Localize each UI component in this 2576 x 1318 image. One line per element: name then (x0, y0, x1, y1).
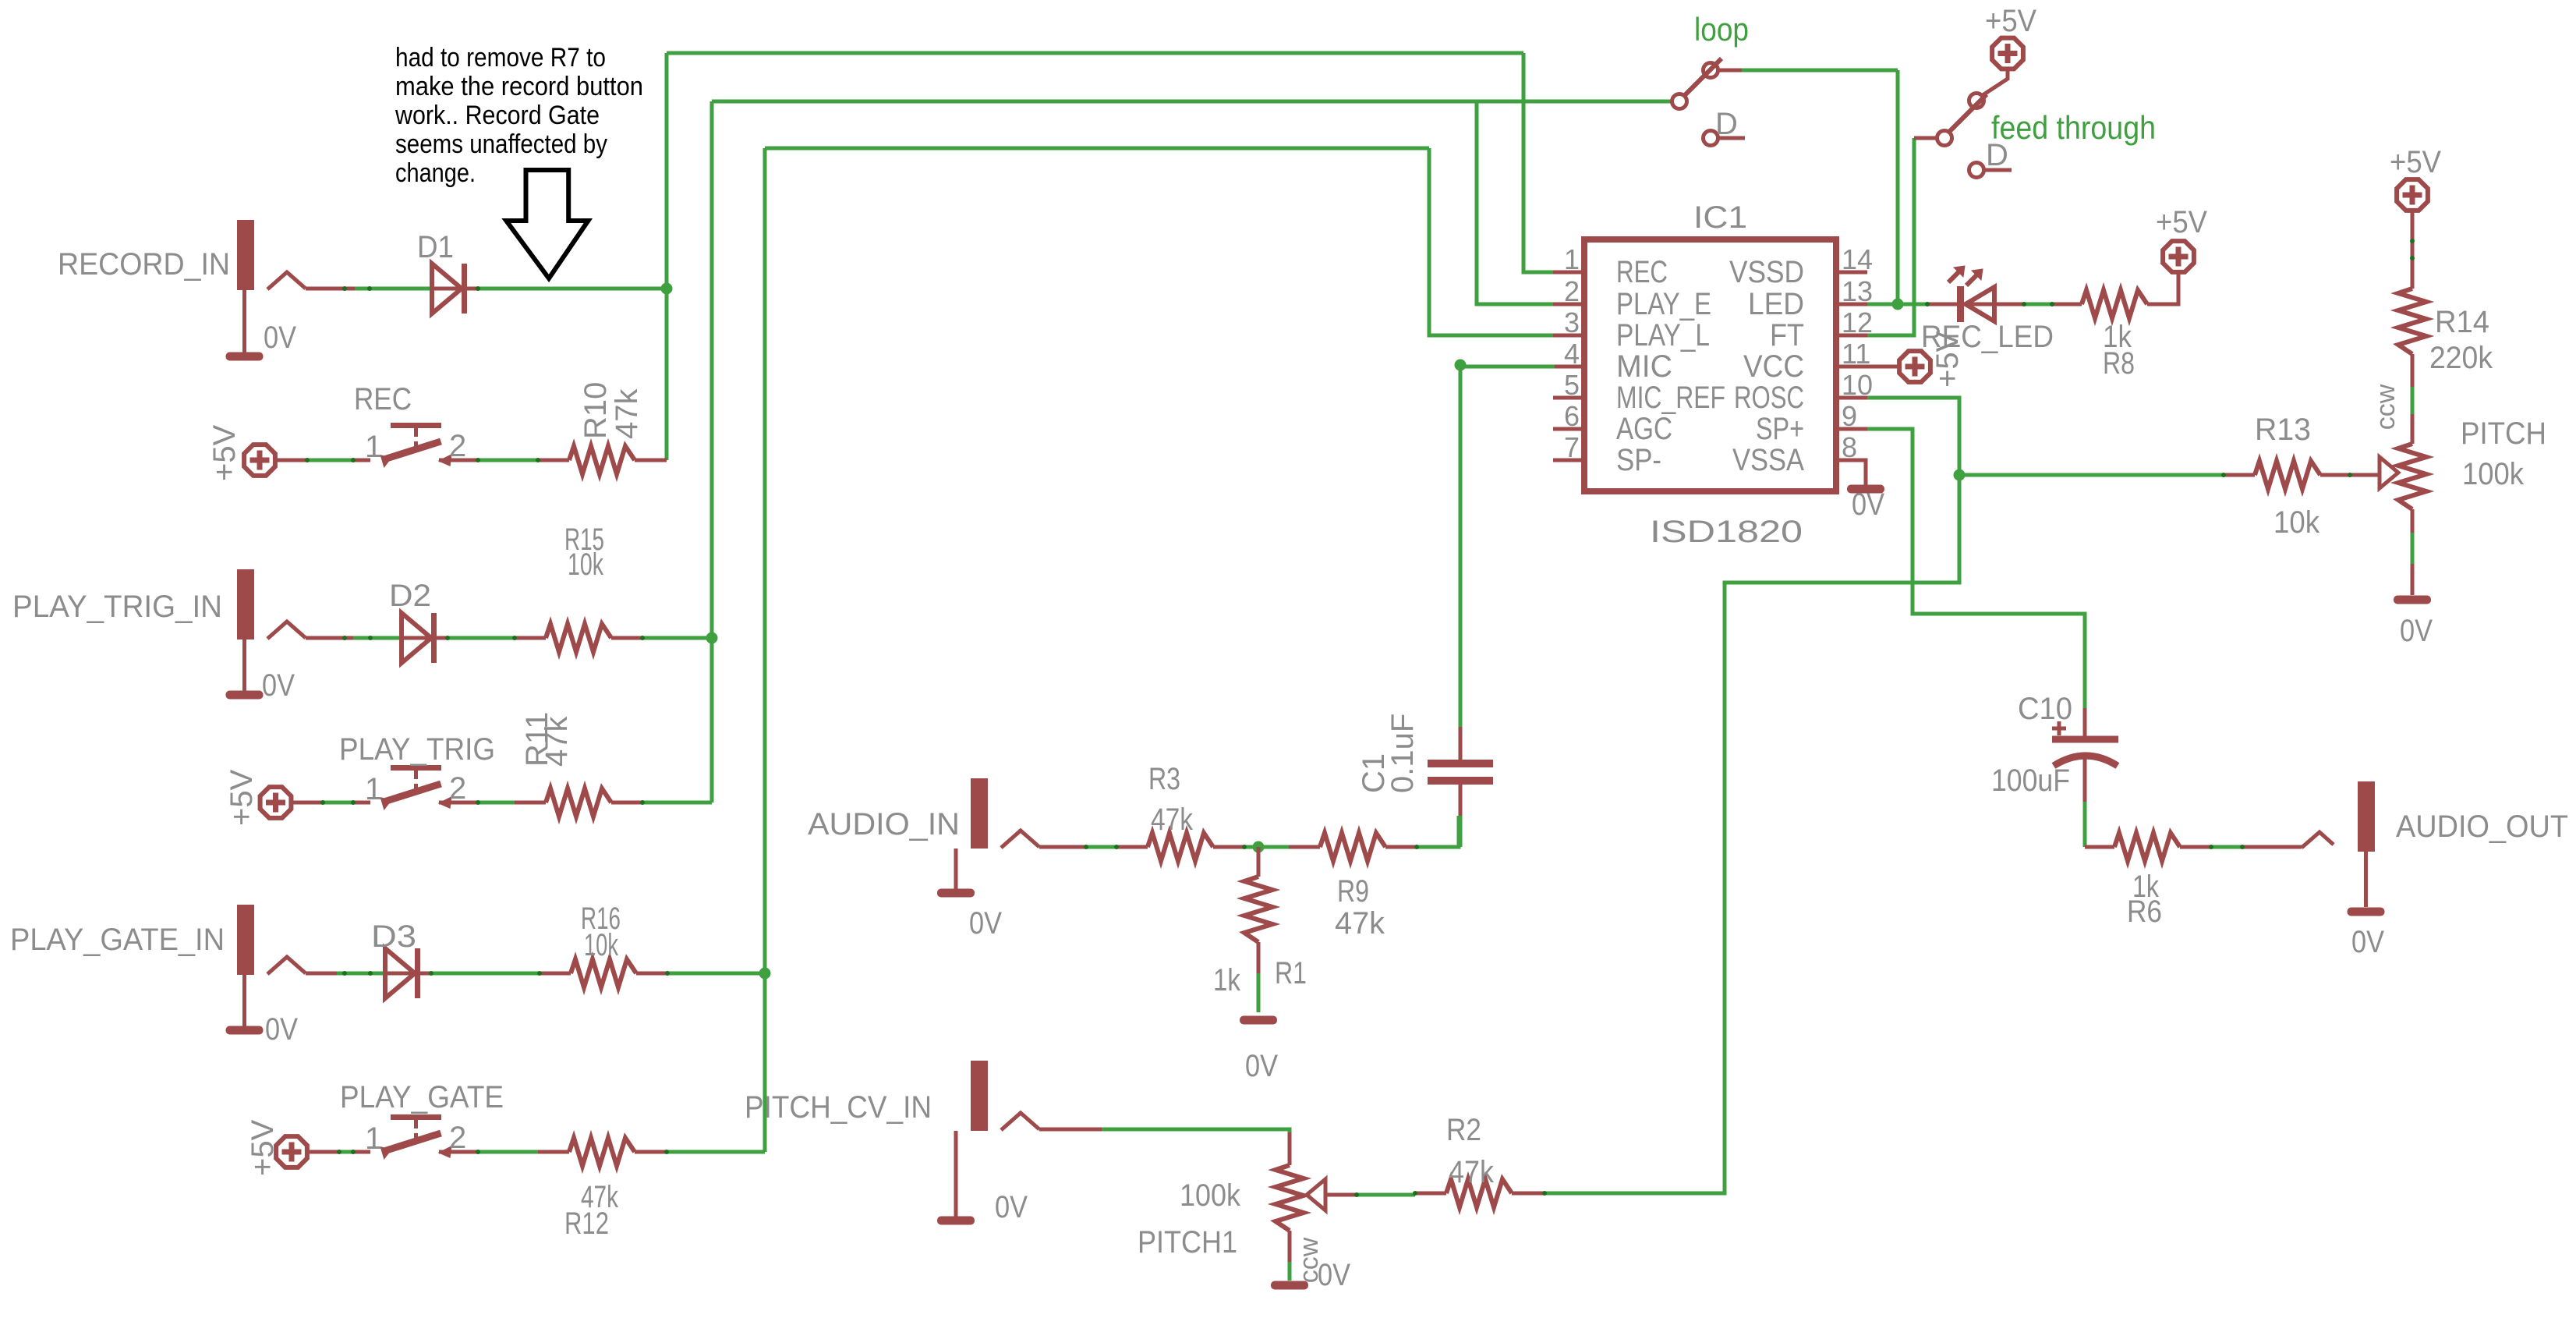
wire R6 right pin (2180, 845, 2211, 849)
resistor R16 zigzag (571, 959, 636, 987)
wire R12 right pin (635, 1150, 667, 1154)
ground PITCH_CV_IN (937, 1217, 975, 1225)
svg-text:+5V: +5V (207, 424, 242, 481)
svg-text:change.: change. (395, 158, 476, 188)
junction AUDIO node (1253, 841, 1265, 853)
svg-text:REC_LED: REC_LED (1921, 320, 2054, 354)
ground AUDIO_OUT (2348, 908, 2385, 916)
wire FT net (1867, 138, 1914, 335)
ground PITCH1 (1271, 1281, 1308, 1290)
jack AUDIO_IN body (971, 778, 1039, 849)
IC1 pin 2 stub (1553, 303, 1584, 306)
wire REC to R10 (478, 459, 538, 462)
svg-text:2: 2 (1564, 275, 1580, 307)
wire D2 to R15 (447, 636, 515, 640)
wire pin1 drop (1523, 53, 1555, 272)
svg-text:0V: 0V (995, 1190, 1028, 1224)
wire RECORD_IN pin (306, 287, 355, 291)
wire D3 to R16 (430, 972, 540, 976)
jack RECORD_IN body (237, 220, 306, 290)
jack PLAY_GATE_IN body (237, 905, 306, 975)
svg-text:PLAY_TRIG: PLAY_TRIG (339, 732, 495, 767)
diode D3 (385, 948, 418, 998)
svg-text:R3: R3 (1148, 762, 1180, 796)
junction PLAY_TRIG node (706, 632, 718, 644)
pushbutton REC (380, 423, 452, 468)
wire LED net pin13 (1867, 303, 1898, 306)
wire C10 bottom pin (2083, 758, 2087, 802)
wire PITCH1 to ground (1288, 1262, 1292, 1281)
joint dots REC row (305, 458, 310, 462)
wire R12 to trunk (667, 1150, 765, 1154)
wire R14 bottom pin (2411, 354, 2415, 387)
resistor R15 zigzag (546, 624, 611, 652)
svg-text:R12: R12 (564, 1206, 609, 1241)
svg-text:10k: 10k (568, 547, 604, 582)
IC1 pin 3 stub (1553, 334, 1584, 338)
wire R15 right pin (611, 636, 642, 640)
wire D1 through (430, 287, 477, 291)
IC IC1 ISD1820 body (1584, 239, 1836, 491)
wire ROSC down to R2 (1545, 475, 1959, 1193)
wire R3 right pin (1213, 845, 1244, 849)
svg-text:+5V: +5V (1985, 4, 2036, 38)
wire VCC pin (1867, 365, 1899, 369)
svg-text:1k: 1k (1213, 963, 1241, 997)
svg-text:47k: 47k (540, 716, 574, 767)
wire MIC net to pin4 (1460, 365, 1555, 369)
resistor R8 zigzag (2082, 290, 2147, 318)
svg-text:10k: 10k (2273, 505, 2320, 540)
svg-text:R10: R10 (579, 382, 613, 439)
junction RECORD_IN node (661, 283, 673, 295)
svg-text:1: 1 (1564, 243, 1580, 275)
wire LED to R8 (2024, 303, 2052, 306)
wire pin8 to ground (1836, 460, 1866, 486)
potentiometer PITCH1 zigzag (1276, 1165, 1304, 1231)
wire C10 top pin (2083, 708, 2087, 738)
wire REC_LED to net (1993, 303, 2024, 306)
IC1 pin 4 stub (1553, 365, 1584, 369)
joint dots R13 row (2221, 473, 2226, 477)
diode D2 (402, 613, 434, 663)
wire C10 to R6 (2083, 802, 2087, 847)
svg-text:RECORD_IN: RECORD_IN (58, 247, 230, 282)
supply +5V feed through (1992, 38, 2023, 69)
potentiometer PITCH wiper (2380, 457, 2398, 488)
IC1 pin 6 stub (1553, 427, 1584, 431)
svg-text:9: 9 (1842, 400, 1857, 432)
svg-text:VSSD: VSSD (1729, 255, 1804, 289)
resistor R2 zigzag (1446, 1179, 1512, 1207)
wire R11 to trunk (642, 801, 712, 805)
capacitor C10 plus sign (2052, 721, 2066, 735)
wire LED to anode (1898, 303, 1927, 306)
joint dots R6 row (2209, 845, 2213, 849)
wire net N$RECORD vertical (665, 53, 669, 460)
IC1 pin 8 stub (1836, 459, 1867, 462)
IC1 pin 13 stub (1836, 303, 1867, 306)
jack PITCH_CV_IN ground stem (954, 1131, 958, 1217)
wire PLAY_GATE to R12 (478, 1150, 538, 1154)
svg-text:LED: LED (1748, 287, 1804, 321)
wire R9 to C1 (1417, 816, 1459, 847)
supply +5V R14 (2397, 179, 2428, 211)
resistor R10 zigzag (569, 446, 635, 474)
svg-text:2: 2 (449, 771, 466, 806)
wire R1 top pin (1257, 847, 1261, 877)
ground PLAY_GATE_IN (226, 1026, 264, 1035)
wire C1 bottom pin (1459, 785, 1463, 816)
wire REC pin2 (439, 459, 478, 462)
ground VSSA pin8 (1847, 485, 1884, 494)
svg-text:5: 5 (1564, 369, 1580, 401)
wire R11 right pin (611, 801, 642, 805)
junction ROSC node (1954, 469, 1966, 481)
wire net N$PLAYGATE vertical (763, 148, 767, 1152)
wire R14 top pin (2411, 211, 2415, 289)
IC1 pin 14 stub (1836, 271, 1867, 275)
svg-text:VSSA: VSSA (1732, 443, 1804, 477)
resistor R11 zigzag (546, 788, 611, 817)
wire R1 to ground (1257, 973, 1261, 1012)
svg-text:REC: REC (1616, 255, 1668, 289)
wire net N$PLAYTRIG trunk (712, 100, 1672, 104)
wire PITCH bottom pin (2411, 509, 2415, 533)
svg-text:0V: 0V (1318, 1258, 1350, 1292)
svg-text:D3: D3 (371, 919, 416, 954)
wire R15 left pin (515, 636, 546, 640)
svg-text:feed through: feed through (1991, 109, 2156, 146)
jack RECORD_IN ground stem (242, 290, 246, 353)
IC1 pin 12 stub (1836, 334, 1867, 338)
wire REC pin1 (353, 459, 370, 462)
wire R2 left pin (1415, 1192, 1446, 1196)
svg-text:100k: 100k (1180, 1178, 1241, 1213)
junction LED node (1892, 299, 1904, 310)
svg-text:PLAY_L: PLAY_L (1616, 318, 1710, 353)
svg-text:PITCH1: PITCH1 (1138, 1225, 1237, 1260)
svg-text:0V: 0V (1852, 487, 1884, 522)
svg-text:47k: 47k (1449, 1155, 1495, 1189)
joint dots RECORD_IN (342, 286, 347, 291)
wire PLAY_GATE pin2 (439, 1150, 478, 1154)
svg-text:11: 11 (1842, 338, 1870, 370)
wire R10 right pin (635, 459, 667, 462)
wire PITCH1 top pin (1288, 1132, 1292, 1165)
wire R2 right pin (1512, 1192, 1545, 1196)
LED REC_LED (1948, 266, 1994, 322)
svg-text:0V: 0V (264, 321, 296, 355)
svg-text:ISD1820: ISD1820 (1650, 515, 1803, 549)
svg-text:7: 7 (1564, 431, 1580, 463)
svg-text:PITCH: PITCH (2461, 416, 2546, 451)
svg-text:4: 4 (1564, 338, 1580, 370)
wire PITCH_CV net (1102, 1129, 1290, 1132)
ground PLAY_TRIG_IN (226, 691, 264, 700)
wire R11 left pin (515, 801, 546, 805)
svg-text:+5V: +5V (225, 769, 259, 826)
wire R16 to trunk (667, 972, 765, 976)
svg-text:PITCH_CV_IN: PITCH_CV_IN (745, 1090, 932, 1125)
svg-text:14: 14 (1842, 243, 1873, 275)
wire wiper to R2 (1357, 1193, 1415, 1197)
wire PITCH ground pin (2411, 564, 2415, 595)
diode D1 (432, 264, 465, 314)
wire PLAY_TRIG_IN net (353, 636, 402, 640)
switch loop (1672, 58, 1746, 146)
IC1 pin 5 stub (1553, 396, 1584, 400)
wire R8 left pin (2052, 303, 2082, 306)
svg-text:AUDIO_IN: AUDIO_IN (808, 807, 960, 841)
wire R12 left pin (538, 1150, 569, 1154)
wire C10 corner to R6 (2085, 845, 2114, 849)
wire D3 through (385, 972, 430, 976)
svg-text:PLAY_TRIG_IN: PLAY_TRIG_IN (12, 590, 222, 624)
wire R13 right pin (2320, 473, 2350, 477)
svg-text:VCC: VCC (1743, 349, 1804, 384)
svg-text:2: 2 (449, 429, 466, 463)
svg-text:10k: 10k (584, 928, 619, 962)
wire R1 bottom pin (1257, 942, 1261, 973)
svg-text:R1: R1 (1275, 956, 1307, 990)
ground R1 (1240, 1016, 1277, 1025)
junction MIC node (1455, 360, 1467, 371)
svg-text:100uF: 100uF (1991, 764, 2070, 798)
supply +5V R8 (2163, 241, 2194, 272)
svg-text:REC: REC (354, 382, 412, 416)
ground PITCH (2394, 596, 2431, 604)
jack AUDIO_OUT ground stem (2364, 852, 2368, 907)
wire PITCH1 bottom pin (1288, 1231, 1292, 1262)
capacitor C1 (1428, 764, 1493, 781)
pushbutton PLAY_TRIG (380, 765, 452, 810)
wire R3 to node (1244, 845, 1289, 849)
junction PLAY_GATE node (759, 968, 771, 980)
wire PITCH top pin (2411, 414, 2415, 444)
wire C1 to audio node (1459, 816, 1463, 847)
resistor R1 zigzag vertical (1244, 877, 1272, 942)
potentiometer PITCH1 wiper (1307, 1179, 1325, 1210)
wire PITCH1 wiper pin (1325, 1193, 1357, 1197)
wire pin3 drop (1429, 148, 1555, 335)
svg-text:IC1: IC1 (1693, 200, 1747, 235)
svg-text:47k: 47k (1151, 802, 1194, 837)
svg-text:2: 2 (449, 1121, 466, 1155)
wire PLAY_TRIG_IN pin (306, 636, 353, 640)
capacitor C10 (2052, 739, 2118, 766)
svg-text:R9: R9 (1337, 874, 1369, 909)
wire R3 left pin (1116, 845, 1148, 849)
resistor R12 zigzag (569, 1138, 635, 1166)
wire loop top contact pin (1718, 69, 1742, 73)
svg-text:+5V: +5V (2156, 205, 2207, 239)
svg-text:MIC: MIC (1616, 349, 1672, 384)
wire R14 to PITCH (2411, 387, 2415, 414)
wire +5V to REC sw (307, 459, 353, 462)
wire AUDIO_IN pin (1039, 845, 1086, 849)
joint dots PLAY_GATE row (337, 1150, 341, 1154)
supply +5V VCC (1899, 351, 1930, 382)
svg-text:work.. Record Gate: work.. Record Gate (395, 101, 600, 130)
wire net N$PLAYGATE trunk (765, 147, 1429, 151)
wire net N$RECORD trunk (667, 51, 1523, 55)
svg-text:0V: 0V (2351, 925, 2384, 959)
svg-text:make the record button: make the record button (395, 72, 643, 101)
svg-text:AGC: AGC (1616, 412, 1672, 446)
resistor R13 zigzag (2255, 461, 2320, 489)
wire PLAY_GATE_IN net (337, 972, 385, 976)
joint dots PLAY_GATE_IN row (342, 971, 347, 976)
svg-text:R13: R13 (2255, 413, 2311, 447)
wire loop vertical (1896, 70, 1900, 304)
IC1 pin 9 stub (1836, 427, 1867, 431)
wire ROSC to R13 (1959, 473, 2224, 477)
svg-text:ccw: ccw (2371, 384, 2401, 430)
wire R9 right pin (1385, 845, 1417, 849)
svg-text:0V: 0V (262, 668, 295, 703)
svg-text:ROSC: ROSC (1734, 381, 1804, 415)
jack PLAY_GATE_IN ground stem (242, 975, 246, 1027)
wire PLAY_GATE_IN pin (306, 972, 337, 976)
svg-text:47k: 47k (610, 388, 644, 439)
svg-text:PLAY_GATE_IN: PLAY_GATE_IN (10, 923, 225, 957)
joint dots R14 top (2410, 239, 2415, 243)
svg-text:had to remove R7 to: had to remove R7 to (395, 43, 606, 73)
wire D1 to trunk (477, 287, 667, 291)
wire +5V REC pin (277, 459, 307, 462)
svg-text:47k: 47k (1335, 906, 1385, 941)
svg-text:seems unaffected by: seems unaffected by (395, 129, 607, 159)
joint dots R2 row (1354, 1192, 1359, 1197)
annotation arrow (506, 170, 588, 278)
svg-text:D2: D2 (389, 579, 431, 613)
svg-text:1: 1 (365, 1121, 382, 1156)
wire +5V to PLAY_GATE sw (339, 1150, 353, 1154)
resistor R9 zigzag (1320, 833, 1385, 861)
switch feed through (1937, 70, 2012, 178)
IC1 pin 7 stub (1553, 459, 1584, 462)
supply +5V PLAY_GATE (276, 1136, 307, 1167)
wire R15 to trunk (642, 636, 712, 640)
jack AUDIO_OUT (2302, 781, 2375, 852)
wire R10 left pin (538, 459, 569, 462)
IC1 pin 1 stub (1553, 271, 1584, 275)
wire feed sw common pin (1914, 136, 1937, 140)
wire R9 left pin (1289, 845, 1320, 849)
wire +5V to PLAY_TRIG sw (323, 801, 353, 805)
jack PITCH_CV_IN body (971, 1061, 1039, 1131)
svg-text:+5V: +5V (246, 1119, 280, 1176)
wire PLAY_TRIG to R11 (478, 801, 515, 805)
svg-text:0V: 0V (265, 1012, 298, 1047)
wire R8 to +5V (2147, 274, 2178, 304)
svg-text:FT: FT (1770, 318, 1804, 353)
wire R13 left pin (2224, 473, 2255, 477)
wire PLAY_TRIG pin1 (353, 801, 370, 805)
wire PITCH_CV_IN pin (1039, 1128, 1102, 1132)
resistor R14 zigzag vertical (2398, 289, 2426, 354)
svg-text:C10: C10 (2018, 692, 2072, 726)
jack PLAY_TRIG_IN body (237, 569, 306, 640)
svg-text:0V: 0V (2400, 614, 2433, 648)
joint dots LED row (1925, 302, 1930, 306)
svg-text:0.1uF: 0.1uF (1385, 714, 1420, 793)
svg-text:AUDIO_OUT: AUDIO_OUT (2396, 810, 2568, 844)
svg-text:SP+: SP+ (1756, 412, 1804, 446)
wire PITCH to ground (2411, 533, 2415, 564)
joint dots PLAY_TRIG_IN row (342, 636, 347, 640)
supply +5V PLAY_TRIG (260, 787, 292, 818)
wire C1 top pin (1459, 727, 1463, 761)
svg-text:PLAY_E: PLAY_E (1616, 287, 1711, 321)
svg-text:MIC_REF: MIC_REF (1616, 381, 1725, 415)
wire PLAY_TRIG pin2 (439, 801, 478, 805)
jack PLAY_TRIG_IN ground stem (242, 640, 246, 692)
svg-text:loop: loop (1694, 11, 1749, 48)
wire AUDIO_IN net (1086, 845, 1116, 849)
svg-text:R6: R6 (2127, 895, 2162, 929)
svg-text:PLAY_GATE: PLAY_GATE (340, 1080, 504, 1114)
wire D2 through (402, 636, 447, 640)
joint dots PLAY_TRIG row (320, 800, 325, 805)
wire RECORD_IN net (355, 287, 430, 291)
svg-text:R14: R14 (2435, 305, 2489, 339)
resistor R3 zigzag (1148, 833, 1213, 861)
resistor R6 zigzag (2114, 833, 2180, 861)
ground AUDIO_IN (937, 889, 975, 898)
svg-text:1: 1 (365, 430, 382, 464)
wire net N$PLAYTRIG vertical (710, 101, 714, 802)
wire PLAY_GATE pin1 (353, 1150, 370, 1154)
supply +5V REC (244, 445, 275, 476)
wire R6 to jack (2211, 845, 2242, 849)
svg-text:0V: 0V (969, 906, 1002, 941)
svg-text:R8: R8 (2103, 346, 2135, 381)
ground RECORD_IN (226, 353, 264, 361)
svg-text:100k: 100k (2462, 457, 2525, 491)
svg-text:6: 6 (1564, 400, 1580, 432)
svg-text:D: D (1715, 107, 1738, 141)
wire REC_LED through (1957, 303, 1993, 306)
potentiometer PITCH zigzag (2398, 444, 2426, 509)
wire ROSC net (1867, 398, 1959, 475)
svg-text:3: 3 (1564, 306, 1580, 338)
wire loop horizontal (1742, 69, 1898, 73)
pushbutton PLAY_GATE (380, 1114, 452, 1160)
wire SP+ net (1867, 429, 2085, 708)
wire REC_LED right pin (1927, 303, 1957, 306)
svg-text:R2: R2 (1446, 1113, 1481, 1147)
svg-text:0V: 0V (1245, 1049, 1278, 1083)
wire pin2 drop (1477, 101, 1555, 304)
svg-text:SP-: SP- (1616, 443, 1661, 477)
wire MIC vertical to C1 (1459, 367, 1463, 727)
wire +5V PLAY_GATE pin (309, 1150, 339, 1154)
svg-text:1: 1 (365, 772, 382, 806)
IC1 pin 10 stub (1836, 396, 1867, 400)
wire R13 to wiper (2350, 473, 2378, 477)
svg-text:D1: D1 (417, 230, 454, 264)
svg-text:+5V: +5V (2390, 145, 2441, 179)
IC1 pin 11 stub (1836, 365, 1867, 369)
svg-text:220k: 220k (2429, 341, 2493, 375)
jack AUDIO_IN ground stem (954, 849, 958, 889)
wire +5V PLAY_TRIG pin (292, 801, 323, 805)
wire AUDIO_OUT pin (2242, 845, 2302, 849)
wire R16 left pin (540, 972, 571, 976)
joint dots AUDIO row (1084, 845, 1088, 849)
